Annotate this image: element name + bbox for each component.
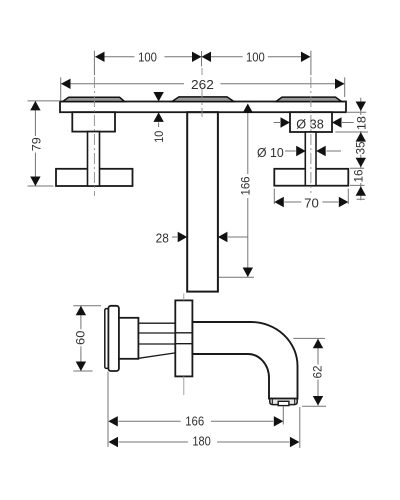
dimension 262 line: [61, 77, 345, 100]
svg-text:100: 100: [246, 49, 265, 64]
centerline right handle: [310, 77, 312, 193]
svg-text:35: 35: [354, 141, 368, 154]
svg-text:Ø 10: Ø 10: [257, 145, 284, 160]
pipe lines across plate: [175, 333, 192, 344]
svg-text:62: 62: [311, 365, 325, 378]
svg-text:100: 100: [138, 49, 157, 64]
svg-text:Ø 38: Ø 38: [296, 116, 324, 131]
svg-text:28: 28: [156, 231, 169, 246]
aerator ring: [270, 399, 297, 405]
dimension 60: [73, 306, 101, 371]
handle bar left: [56, 169, 133, 186]
valve body right: [290, 112, 332, 132]
svg-text:60: 60: [74, 330, 88, 345]
dimension 79: [28, 101, 61, 186]
aerator ring ticks: [272, 399, 294, 404]
right dimension chain 18-35-16: [335, 98, 368, 201]
dimension D10: [285, 150, 341, 152]
svg-text:70: 70: [304, 196, 319, 211]
socket cylinder: [119, 318, 138, 359]
extension line wall: [107, 372, 109, 448]
spout tube: [192, 322, 297, 399]
dimension 70: [274, 189, 348, 204]
svg-text:18: 18: [354, 116, 368, 130]
dimension 100-100 line: [94, 51, 311, 76]
extension line outlet center: [282, 406, 284, 425]
svg-text:16: 16: [351, 169, 365, 182]
svg-text:79: 79: [30, 137, 44, 151]
dim 262 arrows: [61, 79, 345, 89]
wall plate: [60, 102, 346, 113]
valve body left: [72, 112, 115, 131]
dimension 10 plate thickness: [153, 92, 163, 122]
escutcheon left: [63, 97, 125, 101]
centerline middle: [201, 68, 203, 117]
side view flange body: [108, 306, 119, 371]
side view flange rim: [105, 309, 109, 369]
escutcheon right: [276, 97, 342, 101]
dimension D38: [274, 122, 354, 124]
dimension 180: [119, 441, 290, 443]
dimension 28: [172, 236, 248, 238]
centerline left handle: [93, 77, 95, 196]
handle bar right: [274, 169, 348, 186]
stem left: [88, 132, 100, 186]
stem right: [305, 132, 316, 186]
spout supply pipe front view: [187, 112, 218, 291]
svg-text:166: 166: [185, 413, 204, 428]
svg-text:10: 10: [152, 131, 166, 143]
dimension 166 vertical: [219, 113, 254, 277]
plate centerline: [183, 294, 185, 396]
aerator insert: [278, 401, 289, 405]
svg-text:166: 166: [239, 176, 253, 195]
svg-text:180: 180: [192, 434, 211, 449]
dim 100-100 arrows: [95, 52, 311, 62]
escutcheon plate side view: [175, 300, 192, 376]
dimension 62: [293, 338, 326, 406]
connecting pipes: [138, 323, 175, 358]
escutcheon middle: [172, 97, 234, 102]
extension line spout end: [299, 407, 301, 448]
dimension 166 bottom: [118, 420, 273, 422]
